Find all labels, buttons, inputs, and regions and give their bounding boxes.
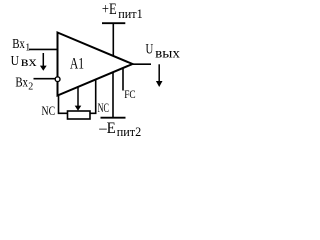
power rail bar +Eпит1	[102, 22, 125, 24]
arrow wiper onto resistor	[75, 86, 82, 111]
svg-text:A1: A1	[70, 56, 84, 73]
wire output	[133, 63, 151, 65]
svg-text:вх: вх	[21, 54, 37, 69]
svg-text:пит2: пит2	[117, 124, 142, 139]
svg-text:пит1: пит1	[118, 6, 143, 21]
wire -Eпит2 to op-amp	[112, 72, 114, 118]
svg-text:U: U	[146, 42, 154, 58]
svg-text:вых: вых	[155, 45, 180, 60]
svg-text:Вх: Вх	[15, 76, 28, 91]
power rail bar -Eпит2	[101, 117, 126, 119]
svg-text:1: 1	[25, 42, 30, 53]
op-amp A1	[58, 33, 133, 96]
svg-text:+E: +E	[102, 1, 117, 18]
svg-text:2: 2	[28, 81, 33, 92]
svg-text:U: U	[11, 54, 19, 69]
arrow Uвых	[156, 64, 163, 87]
junction bubble on inverting input	[55, 77, 60, 82]
svg-text:–E: –E	[98, 120, 116, 137]
node Вх2	[15, 76, 33, 93]
arrow Uвх	[40, 53, 47, 71]
wire corner to balance resistor left lead	[59, 96, 68, 114]
wire FC stub	[122, 68, 124, 91]
wire NC pin to balance resistor right lead	[90, 80, 96, 114]
svg-text:Вх: Вх	[12, 37, 25, 52]
svg-text:NC: NC	[42, 104, 56, 118]
node Uвх	[11, 54, 37, 69]
wire Вх2 input	[34, 78, 56, 80]
resistor R1 balance potentiometer	[68, 111, 91, 119]
svg-text:NC: NC	[98, 101, 109, 115]
wire Вх1 input	[29, 48, 58, 50]
node Вх1	[12, 37, 30, 53]
wire +Eпит1 to op-amp	[112, 23, 114, 56]
svg-text:FC: FC	[124, 87, 135, 101]
node Uвых	[146, 42, 181, 61]
